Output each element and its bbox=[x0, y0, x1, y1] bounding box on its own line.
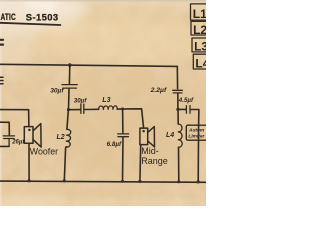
wire 2.2uF to tee bbox=[177, 94, 179, 110]
wire shunt capacitor return rail bbox=[0, 145, 9, 147]
capacitor C 30uF series bbox=[81, 104, 84, 113]
svg-text:26µf: 26µf bbox=[11, 140, 25, 146]
svg-text:L3: L3 bbox=[102, 97, 110, 104]
capacitor 26uF bbox=[3, 136, 14, 146]
svg-text:30µf: 30µf bbox=[50, 88, 64, 95]
wire bus to C30 bbox=[68, 65, 70, 84]
L3 table box bbox=[192, 38, 209, 52]
svg-text:Autom: Autom bbox=[188, 128, 205, 134]
svg-text:S-1503: S-1503 bbox=[26, 11, 59, 22]
wire L4 to bottom bus bbox=[178, 147, 180, 182]
svg-text:L1: L1 bbox=[193, 7, 206, 21]
woofer speaker bbox=[24, 124, 41, 148]
inductor L3 bbox=[99, 106, 118, 109]
wire bottom bus bbox=[0, 181, 206, 182]
auto limiter box bbox=[186, 125, 207, 140]
wire tee to L4 bbox=[177, 109, 179, 124]
node branch junction bbox=[67, 108, 70, 111]
L4 table box bbox=[193, 54, 210, 69]
left edge terminal ticks upper bbox=[0, 40, 3, 45]
wire woofer input rail bbox=[0, 110, 29, 127]
node bottom bus junctions bbox=[28, 179, 200, 183]
inductor L4 bbox=[178, 124, 182, 147]
svg-text:4.5µf: 4.5µf bbox=[178, 97, 194, 104]
wire branch to series capacitor bbox=[69, 109, 81, 111]
capacitor C 2.2uF bbox=[173, 90, 183, 93]
wire top bus bbox=[0, 64, 177, 66]
wire 4.5uF to limiter bbox=[191, 110, 199, 126]
wire branch junction down to L2 bbox=[67, 110, 69, 130]
svg-text:6.8µf: 6.8µf bbox=[107, 141, 122, 148]
wire woofer to bottom bus bbox=[28, 143, 30, 180]
paper background bbox=[0, 0, 206, 206]
svg-text:30µf: 30µf bbox=[74, 97, 87, 104]
wire tee to 4.5uF bbox=[178, 108, 186, 110]
svg-text:Range: Range bbox=[141, 156, 168, 166]
wire through limiter to bottom bus bbox=[197, 125, 199, 182]
wire series cap to L3 bbox=[84, 108, 98, 110]
capacitor C 6.8uF bbox=[118, 134, 129, 137]
svg-text:L4: L4 bbox=[195, 56, 206, 70]
svg-text:Mid-: Mid- bbox=[141, 146, 159, 156]
wire L3 to mid corner bbox=[117, 109, 143, 128]
wire right vertical from bus corner bbox=[176, 66, 178, 88]
left edge terminal ticks lower bbox=[0, 77, 3, 83]
wire L2 to bottom bus bbox=[64, 147, 66, 181]
capacitor C 30uF shunt bbox=[62, 85, 77, 89]
inductor L2 bbox=[66, 129, 71, 147]
L2 table box bbox=[191, 21, 208, 35]
wire 6.8uF to bottom bus bbox=[122, 137, 125, 181]
svg-text:Woofer: Woofer bbox=[30, 146, 58, 156]
svg-text:L4: L4 bbox=[166, 132, 174, 139]
svg-text:ATIC: ATIC bbox=[0, 12, 15, 22]
node 6.8uF tee bbox=[121, 108, 124, 111]
svg-text:L2: L2 bbox=[193, 23, 206, 37]
title underline bbox=[0, 23, 60, 25]
mid-range speaker bbox=[140, 127, 155, 147]
wire input stub for shunt capacitor bbox=[0, 122, 9, 135]
node A bus junction bbox=[68, 63, 72, 67]
svg-text:2.2µf: 2.2µf bbox=[150, 87, 167, 94]
svg-text:L2: L2 bbox=[57, 134, 65, 141]
L1 table box bbox=[191, 4, 208, 20]
svg-text:L3: L3 bbox=[194, 39, 206, 53]
capacitor C 4.5uF bbox=[186, 106, 190, 114]
wire C30 to branch junction bbox=[68, 89, 71, 110]
node 4.5uF tee bbox=[176, 108, 179, 111]
wire tee down to 6.8uF bbox=[122, 109, 124, 133]
wire mid-range to bottom bus bbox=[139, 145, 142, 182]
svg-text:Limiter: Limiter bbox=[188, 134, 205, 140]
